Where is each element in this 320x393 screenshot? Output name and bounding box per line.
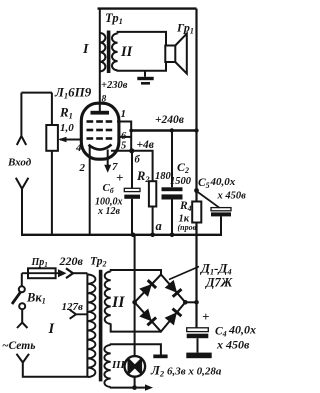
svg-text:(пров: (пров: [178, 223, 197, 232]
svg-text:х 450в: х 450в: [217, 191, 247, 202]
svg-text:I: I: [82, 42, 89, 57]
svg-text:~Сеть: ~Сеть: [2, 340, 35, 352]
svg-text:Д7Ж: Д7Ж: [205, 276, 233, 290]
svg-text:б: б: [135, 155, 141, 166]
svg-text:Д1-Д4: Д1-Д4: [200, 261, 232, 277]
svg-text:х 12в: х 12в: [97, 206, 121, 217]
svg-text:II: II: [120, 44, 134, 60]
svg-text:1500: 1500: [170, 176, 192, 187]
svg-text:III: III: [111, 359, 126, 371]
svg-text:х 450в: х 450в: [216, 338, 250, 352]
svg-text:II: II: [111, 294, 125, 311]
svg-text:Л16П9: Л16П9: [54, 85, 92, 101]
svg-text:+4в: +4в: [137, 139, 154, 151]
svg-text:40,0х: 40,0х: [228, 323, 256, 337]
svg-text:220в: 220в: [59, 254, 84, 268]
svg-text:40,0х: 40,0х: [210, 176, 236, 188]
svg-text:+240в: +240в: [155, 114, 184, 126]
svg-text:127в: 127в: [62, 301, 84, 313]
svg-text:2: 2: [79, 162, 86, 174]
svg-text:5: 5: [121, 141, 126, 152]
svg-text:+230в: +230в: [101, 80, 128, 91]
svg-text:+: +: [116, 170, 123, 185]
svg-text:1: 1: [121, 108, 127, 120]
svg-text:6,3в х 0,28а: 6,3в х 0,28а: [167, 366, 222, 378]
svg-text:+: +: [202, 309, 209, 324]
svg-text:4: 4: [75, 142, 82, 154]
svg-text:Вход: Вход: [7, 157, 32, 169]
svg-text:а: а: [156, 219, 162, 233]
svg-text:1,0: 1,0: [60, 122, 74, 134]
